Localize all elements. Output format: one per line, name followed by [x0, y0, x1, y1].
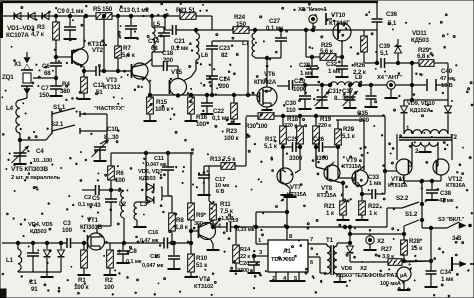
- svg-text:5,1 к: 5,1 к: [342, 133, 356, 140]
- resistor R7: [117, 16, 119, 46]
- svg-text:380: 380: [60, 88, 71, 95]
- wire x431 down to meter node: [430, 228, 432, 261]
- resistor R8: [171, 196, 173, 213]
- border left edge: [0, 2, 3, 38]
- svg-text:91: 91: [31, 286, 38, 293]
- variable capacitor C31: [321, 85, 323, 96]
- svg-text:R24: R24: [234, 14, 246, 21]
- scan mark bottom-left: [0, 289, 6, 298]
- svg-text:22 к: 22 к: [240, 254, 250, 260]
- capacitor C1: [31, 241, 34, 244]
- emitter rail VT11/VT12: [403, 175, 405, 181]
- svg-text:200: 200: [219, 83, 230, 90]
- svg-text:C36: C36: [386, 11, 398, 18]
- svg-text:C7: C7: [41, 85, 49, 92]
- transistor VT12 KT816A: [433, 159, 449, 175]
- capacitor C25: [282, 144, 284, 170]
- resistor R4: [81, 77, 88, 93]
- svg-text:S1.2: S1.2: [405, 211, 418, 218]
- svg-text:VT9: VT9: [346, 157, 358, 164]
- svg-text:КТ816А: КТ816А: [446, 183, 466, 189]
- wire y57 R25 row: [305, 30, 307, 57]
- svg-text:1,8 к: 1,8 к: [175, 224, 189, 231]
- diode VD6: [145, 153, 147, 201]
- svg-text:7: 7: [310, 237, 313, 243]
- svg-text:2 шт. в параллель: 2 шт. в параллель: [11, 175, 61, 181]
- svg-text:C4: C4: [36, 148, 44, 155]
- zener diode VD3: [43, 13, 50, 20]
- node VT2 collector: [84, 14, 87, 17]
- resistor R5: [96, 13, 112, 20]
- VT11 collector wire: [385, 170, 397, 172]
- capacitor C29: [288, 80, 290, 90]
- svg-text:R5 150: R5 150: [93, 6, 113, 13]
- transformer T2 core: [399, 137, 452, 139]
- svg-text:C40: C40: [441, 68, 453, 75]
- VT9 collector: [357, 166, 364, 172]
- resistor R1: [83, 251, 85, 253]
- capacitor C19: [213, 226, 227, 228]
- transformer T2 secondary: [412, 142, 438, 146]
- C10 ground: [99, 150, 101, 160]
- wire meter node y261: [396, 260, 431, 262]
- resistor R30: [258, 113, 274, 120]
- svg-text:C26: C26: [313, 136, 325, 143]
- resistor R28: [403, 226, 405, 240]
- svg-text:100 мкА: 100 мкА: [380, 281, 401, 287]
- wire L7/C27 to VT6 drain: [255, 57, 281, 59]
- svg-text:ZQ1: ZQ1: [2, 74, 14, 81]
- wire R6 node to L2: [111, 189, 122, 191]
- capacitor C36: [372, 18, 383, 20]
- svg-text:VT4: VT4: [199, 276, 211, 283]
- svg-text:C5: C5: [92, 195, 100, 202]
- VT4 emitter ground: [200, 235, 211, 240]
- svg-text:+: +: [408, 262, 411, 268]
- capacitor C17: [203, 166, 205, 174]
- svg-text:R22: R22: [368, 203, 380, 210]
- resistor R11: [210, 204, 217, 220]
- svg-text:КД503: КД503: [30, 229, 48, 235]
- svg-text:TDA7050: TDA7050: [271, 257, 295, 263]
- supply feed x104: [103, 16, 105, 71]
- connector X2: [366, 236, 374, 244]
- svg-text:C22: C22: [213, 108, 225, 115]
- inductor L7: [254, 30, 256, 33]
- ground bottom left: [46, 272, 48, 276]
- resistor R3: [55, 16, 57, 22]
- T2 secondary leads: [411, 142, 413, 166]
- wire y63 C39 row: [364, 62, 378, 64]
- vertical feed to VT6 gate: [247, 41, 249, 95]
- svg-text:КП303В: КП303В: [80, 224, 103, 231]
- wire rail R5 to R21: [112, 15, 180, 17]
- svg-text:110: 110: [286, 107, 296, 114]
- svg-text:КТ816Г: КТ816Г: [329, 20, 350, 27]
- svg-text:R2: R2: [105, 277, 113, 284]
- svg-text:X1: X1: [14, 61, 22, 68]
- svg-text:100: 100: [196, 121, 207, 128]
- svg-text:3300: 3300: [315, 155, 329, 162]
- svg-text:5,1 к: 5,1 к: [264, 143, 278, 150]
- VT6 source ground: [266, 107, 268, 109]
- wire R27 to meter node: [402, 261, 431, 262]
- wire x256 to A1 pin1: [255, 212, 257, 244]
- wire emitter rail down through switches: [421, 181, 423, 228]
- svg-text:VT5 КП303В: VT5 КП303В: [11, 166, 48, 173]
- test point arrow: [213, 218, 221, 227]
- svg-text:C21: C21: [174, 38, 186, 45]
- svg-text:150: 150: [236, 21, 247, 28]
- scan noise speckle: [302, 9, 303, 10]
- svg-text:C9 0,1 мк: C9 0,1 мк: [57, 8, 84, 15]
- svg-text:1 мк: 1 мк: [328, 68, 341, 75]
- svg-text:VT12: VT12: [448, 176, 463, 183]
- svg-text:КТ315А: КТ315А: [342, 164, 362, 170]
- svg-text:R11: R11: [220, 201, 231, 208]
- VT1 source wire right: [105, 242, 165, 244]
- svg-text:L1: L1: [6, 257, 14, 264]
- VT7 emitter ground: [282, 182, 290, 188]
- capacitor C12: [84, 70, 96, 72]
- transistor VT11 KT816A: [396, 159, 412, 175]
- wire ZQ1 node to C6/C7 node: [33, 77, 56, 79]
- node R7: [116, 14, 119, 17]
- capacitor C22: [205, 93, 208, 96]
- svg-text:5,1: 5,1: [380, 50, 389, 57]
- bottom link wire: [18, 271, 61, 273]
- capacitor C26: [315, 144, 317, 167]
- vertical x246 rail to R13: [245, 117, 247, 166]
- capacitor C15: [173, 243, 175, 255]
- resistor R26: [363, 30, 365, 36]
- svg-text:4,7 к: 4,7 к: [31, 31, 45, 38]
- svg-text:C10: C10: [107, 126, 119, 133]
- svg-text:VD8: VD8: [341, 266, 353, 272]
- resistor R15: [148, 93, 151, 96]
- svg-text:R7: R7: [123, 45, 131, 52]
- power plug: [451, 257, 453, 271]
- transistor VT9 KT315A: [352, 170, 368, 186]
- wire VT5 collector to L6: [183, 77, 191, 81]
- svg-text:S3 "ВКЛ.": S3 "ВКЛ.": [438, 217, 465, 223]
- capacitor C23 column: [211, 41, 213, 46]
- transistor VT7 KT315A: [277, 168, 293, 184]
- wire x385 down: [384, 116, 386, 194]
- svg-text:C34: C34: [440, 269, 452, 276]
- wire ZQ1 to L4: [26, 94, 28, 98]
- wire VD9/VD10 top rail: [404, 99, 448, 101]
- A1 ground pins 2 4 5: [275, 272, 277, 280]
- pin1 wire: [256, 243, 268, 245]
- wire x387 S2.2 to audio line: [386, 208, 388, 227]
- zener diode VD2: [29, 13, 36, 20]
- wire X4 to C40: [395, 84, 426, 86]
- vertical x364 VT9 collector: [363, 120, 365, 170]
- emitter network VT2 wire: [83, 66, 85, 77]
- transistor VT4 KT3102: [199, 223, 216, 240]
- svg-text:C39: C39: [379, 43, 391, 50]
- svg-text:C8: C8: [129, 248, 137, 255]
- svg-text:15 к: 15 к: [411, 245, 423, 252]
- middle rail y116: [246, 115, 385, 117]
- svg-text:1 мк: 1 мк: [369, 180, 382, 187]
- wire y30 to C36 column: [333, 29, 350, 31]
- svg-text:VD4, VD5: VD4, VD5: [28, 222, 54, 228]
- capacitor C2: [95, 185, 97, 195]
- wire VT3 emitter to rail: [146, 78, 150, 83]
- svg-text:R6: R6: [116, 170, 124, 177]
- wire X2 row y234: [350, 233, 404, 235]
- svg-text:S2.2: S2.2: [396, 195, 409, 202]
- resistor R27: [388, 259, 402, 266]
- svg-text:16 В: 16 В: [441, 83, 453, 89]
- svg-text:1 к: 1 к: [326, 210, 335, 217]
- capacitor C35: [369, 83, 372, 86]
- resistor R2: [109, 243, 111, 250]
- capacitor C20: [252, 254, 255, 257]
- main wire y243 bottom left: [2, 242, 67, 244]
- svg-text:R19: R19: [320, 116, 332, 123]
- svg-text:VT6: VT6: [264, 71, 276, 78]
- svg-text:C27: C27: [269, 18, 281, 25]
- resistor R23: [232, 93, 235, 96]
- svg-text:КТ312: КТ312: [103, 84, 121, 91]
- diode VD5: [59, 241, 62, 244]
- svg-text:220 к: 220 к: [318, 123, 331, 129]
- wire S1.1-S2.1 left link: [51, 117, 53, 128]
- border top edge: [1, 1, 378, 3]
- svg-text:R27: R27: [381, 246, 393, 253]
- svg-text:Т1: Т1: [326, 237, 334, 244]
- svg-text:R18: R18: [287, 116, 299, 123]
- svg-text:VT2: VT2: [92, 47, 104, 54]
- pin6 wire to T1: [308, 256, 320, 258]
- capacitor C8: [122, 243, 124, 250]
- svg-text:КТ315А: КТ315А: [317, 193, 337, 199]
- wire C18 to VT5: [177, 66, 179, 79]
- svg-text:R21: R21: [324, 203, 336, 210]
- svg-text:C28: C28: [299, 62, 311, 69]
- wire C16 to base node: [168, 242, 192, 244]
- svg-text:C24: C24: [219, 76, 231, 83]
- transistor VT5: [170, 79, 187, 96]
- wire X2 phones: [350, 261, 388, 263]
- tank circuit L5: [151, 16, 153, 27]
- wire y152 mid: [111, 152, 168, 154]
- resistor R18: [298, 114, 301, 117]
- resistor R21 output: [342, 183, 344, 201]
- VT9 emitter to R22/C33: [357, 182, 362, 188]
- svg-text:1 мк: 1 мк: [441, 276, 454, 283]
- svg-text:C25: C25: [287, 136, 299, 143]
- svg-text:VT3: VT3: [106, 77, 118, 84]
- VT8 collector stub: [329, 162, 334, 167]
- vertical wire x412: [411, 63, 413, 100]
- wire y30 R24 row: [212, 29, 233, 31]
- wire y212 to pin8 column: [256, 211, 287, 213]
- svg-text:КД503: КД503: [336, 273, 352, 279]
- svg-text:3,9 к: 3,9 к: [382, 254, 394, 260]
- wire S2.1 to L4/C4 node: [20, 139, 46, 141]
- node C9: [68, 14, 71, 17]
- svg-text:КД503: КД503: [411, 37, 429, 44]
- wire R29 to right rail: [434, 62, 448, 64]
- svg-text:R15: R15: [156, 99, 168, 106]
- svg-text:S2.1: S2.1: [51, 121, 64, 128]
- svg-text:43: 43: [94, 202, 101, 209]
- MOSFET VT6 KP902A: [257, 87, 277, 107]
- svg-text:C3: C3: [63, 220, 71, 227]
- svg-text:R26: R26: [354, 62, 366, 69]
- T1 right winding leads: [336, 243, 338, 246]
- wire to VT1 drain: [97, 225, 111, 227]
- capacitor C28: [311, 57, 313, 65]
- svg-text:C14: C14: [148, 38, 160, 45]
- svg-text:R8: R8: [176, 217, 184, 224]
- resistor R21 top rail: [180, 13, 196, 20]
- svg-text:R3: R3: [37, 24, 45, 31]
- wire tank to VT3 collector: [151, 52, 153, 59]
- svg-text:C32: C32: [326, 61, 338, 68]
- vertical X2/VD8 column: [349, 227, 351, 243]
- capacitor C14: [152, 26, 164, 28]
- transistor VT10 KT816G: [333, 23, 351, 41]
- diode VD4: [45, 241, 48, 244]
- wire jog y41: [212, 40, 248, 42]
- svg-text:VD11: VD11: [412, 30, 427, 37]
- svg-text:8...30: 8...30: [104, 134, 119, 141]
- transistor VT3 KT312: [132, 63, 148, 79]
- svg-text:КД102А: КД102А: [410, 108, 432, 114]
- svg-text:C16: C16: [148, 230, 159, 236]
- resistor R20: [335, 129, 342, 145]
- variable capacitor C37: [349, 85, 351, 96]
- inductor L1: [16, 241, 19, 244]
- svg-text:6,8 к: 6,8 к: [417, 53, 431, 60]
- svg-text:68: 68: [151, 45, 158, 52]
- pin3 wire: [252, 255, 268, 257]
- svg-text:µА: µА: [400, 273, 407, 279]
- svg-text:1 к: 1 к: [369, 210, 378, 217]
- svg-text:47 мк: 47 мк: [440, 76, 455, 82]
- wire L8 to X4: [360, 84, 387, 86]
- svg-text:X4 "АНТ": X4 "АНТ": [377, 75, 402, 81]
- wire C36 top corner: [376, 3, 378, 18]
- resistor R25: [320, 54, 336, 61]
- node C21: [163, 14, 166, 17]
- svg-text:КС107А: КС107А: [6, 32, 29, 39]
- svg-text:100 к: 100 к: [224, 135, 239, 142]
- wire R20 feed jog: [336, 119, 364, 121]
- node R3/C6 junction: [54, 14, 57, 17]
- svg-text:0,33 мк: 0,33 мк: [236, 227, 255, 233]
- svg-text:R28*: R28*: [409, 238, 423, 245]
- capacitor C34: [430, 261, 432, 271]
- svg-text:"НАСТР.ТХ": "НАСТР.ТХ": [94, 106, 125, 112]
- svg-text:R9*: R9*: [196, 212, 207, 219]
- long audio wire y227: [256, 226, 387, 228]
- capacitor C18: [152, 65, 163, 67]
- inductor L6: [195, 30, 197, 33]
- resistor R14: [234, 225, 237, 228]
- capacitor C16: [163, 238, 165, 249]
- capacitor C39: [380, 58, 382, 68]
- svg-text:C38: C38: [440, 190, 452, 197]
- svg-text:VD9, VD10: VD9, VD10: [407, 101, 435, 107]
- node C13: [129, 14, 132, 17]
- svg-text:5,6 к: 5,6 к: [320, 48, 334, 55]
- diode VD8: [348, 241, 351, 244]
- svg-text:L7: L7: [242, 40, 250, 47]
- wire R20 to VT9 base: [338, 177, 356, 179]
- transistor VT2 KT312: [72, 49, 88, 65]
- svg-text:2,2 к: 2,2 к: [353, 69, 367, 76]
- FET VT1 KP303V: [88, 233, 105, 250]
- capacitor C24: [206, 75, 218, 77]
- main emitter rail y95: [150, 94, 257, 96]
- resistor R6: [110, 153, 112, 166]
- wire top rail y16: [2, 15, 96, 17]
- svg-text:R10: R10: [196, 255, 208, 262]
- A1 pin8 vertical: [286, 196, 288, 240]
- diode chain right side to R8: [161, 186, 162, 188]
- svg-text:47 мк: 47 мк: [439, 198, 454, 204]
- resistor R10: [190, 243, 192, 254]
- meter PA1: [397, 267, 411, 281]
- svg-text:R14: R14: [240, 247, 251, 253]
- svg-text:150: 150: [39, 92, 50, 99]
- svg-text:R23: R23: [226, 128, 238, 135]
- svg-text:VT7: VT7: [290, 184, 302, 191]
- IC A1 TDA7050: [268, 240, 308, 272]
- svg-text:0,047 мк: 0,047 мк: [142, 263, 164, 269]
- node L5 tank: [150, 14, 153, 17]
- VT8 emitter to R21: [329, 179, 338, 182]
- svg-text:КД503: КД503: [139, 176, 157, 182]
- capacitor C33: [371, 189, 373, 199]
- svg-text:200: 200: [163, 57, 174, 64]
- svg-text:X2: X2: [377, 238, 385, 245]
- wire VT3 collector node to C18: [151, 59, 153, 66]
- wire VT6 drain output y85: [277, 85, 289, 87]
- vertical x209 feed to R11: [208, 166, 210, 201]
- svg-text:C2: C2: [84, 195, 91, 201]
- svg-text:3300: 3300: [289, 155, 303, 162]
- svg-text:0,1 мк: 0,1 мк: [171, 45, 189, 52]
- T2 primary end verticals to collectors: [396, 134, 398, 160]
- svg-text:C19: C19: [228, 218, 239, 224]
- svg-text:3300: 3300: [237, 268, 249, 274]
- wire R1 top: [83, 243, 85, 250]
- svg-text:51 к: 51 к: [196, 262, 208, 269]
- svg-text:C23: C23: [219, 45, 231, 52]
- capacitor C6: [55, 57, 57, 63]
- resistor R29: [398, 62, 419, 64]
- svg-text:6 В: 6 В: [216, 189, 224, 195]
- zener diode VD1: [15, 13, 22, 20]
- capacitor C30: [304, 85, 306, 95]
- resistor R19: [314, 114, 317, 117]
- wire y228 S3 feed: [422, 227, 447, 229]
- svg-text:68: 68: [44, 70, 51, 77]
- svg-text:РА1: РА1: [387, 273, 398, 279]
- capacitor C32: [341, 57, 343, 66]
- resistor R9: [188, 203, 195, 220]
- wire switches right to C10: [106, 114, 108, 140]
- svg-text:Т2: Т2: [450, 134, 458, 141]
- T2 secondary center tap ground: [424, 147, 426, 151]
